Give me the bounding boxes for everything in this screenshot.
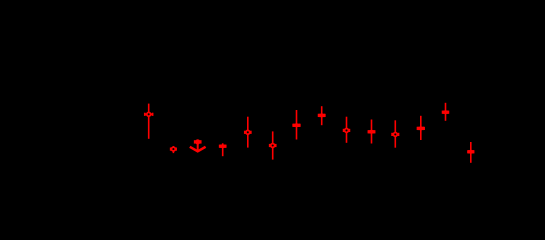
data point 3 (upper limit): filled circle marker	[195, 139, 200, 144]
data point 7: vertical error bar	[296, 110, 298, 140]
data point 12: circle marker	[419, 126, 423, 130]
data point 4: right cap	[225, 145, 227, 148]
data point 2: circle marker	[172, 147, 176, 151]
data point 14: vertical error bar	[470, 142, 472, 163]
data point 9: vertical error bar	[346, 117, 348, 143]
data point 1: left cap	[144, 113, 146, 116]
data point 9: circle marker	[345, 129, 349, 133]
data point 10: right cap	[374, 130, 376, 133]
data point 6: left cap	[269, 144, 271, 147]
data point 6: horizontal error bar	[270, 145, 276, 147]
data point 7: left cap	[292, 124, 294, 127]
data point 3 (upper limit): arrow head	[190, 147, 206, 152]
data point 8: circle marker	[320, 113, 324, 117]
data point 2: left cap	[170, 148, 172, 151]
data point 2: vertical error bar	[172, 146, 174, 153]
data point 4: vertical error bar	[222, 143, 224, 156]
data point 8: vertical error bar	[321, 106, 323, 125]
data point 7: right cap	[299, 124, 301, 127]
data point 3 (upper limit): left cap	[194, 140, 196, 143]
data point 1: vertical error bar	[148, 104, 150, 139]
data point 14: circle marker	[469, 150, 473, 154]
data point 6: right cap	[275, 144, 277, 147]
data point 5: right cap	[250, 131, 252, 134]
data point 11: left cap	[391, 133, 393, 136]
data point 12: vertical error bar	[420, 116, 422, 140]
data point 7: circle marker	[295, 123, 299, 127]
data point 8: right cap	[324, 114, 326, 117]
data point 5: vertical error bar	[247, 117, 249, 148]
data point 3 (upper limit): arrow stem	[197, 142, 199, 151]
data point 11: right cap	[398, 133, 400, 136]
data point 3 (upper limit): horizontal error bar	[195, 140, 201, 143]
data point 11: circle marker	[393, 133, 397, 137]
data point 11: horizontal error bar	[392, 133, 398, 135]
data point 1: right cap	[152, 113, 154, 116]
data point 9: right cap	[348, 129, 350, 132]
data point 2: horizontal error bar	[171, 148, 176, 150]
data point 6: circle marker	[271, 144, 275, 148]
data point 8: horizontal error bar	[319, 114, 325, 117]
data point 12: horizontal error bar	[418, 127, 425, 130]
data point 1: horizontal error bar	[145, 113, 153, 115]
data point 10: circle marker	[370, 130, 374, 134]
data point 2: right cap	[175, 148, 177, 151]
data point 14: left cap	[467, 150, 469, 153]
data point 14: horizontal error bar	[468, 150, 474, 153]
data point 13: circle marker	[444, 110, 448, 114]
data point 6: vertical error bar	[272, 131, 274, 159]
data point 5: left cap	[244, 131, 246, 134]
data point 5: horizontal error bar	[245, 131, 251, 133]
data point 10: left cap	[367, 130, 369, 133]
data point 1: circle marker	[147, 112, 151, 116]
data point 7: horizontal error bar	[293, 124, 300, 127]
data point 12: right cap	[423, 127, 425, 130]
data point 13: left cap	[442, 111, 444, 114]
data point 10: vertical error bar	[371, 120, 373, 144]
data point 4: circle marker	[221, 144, 225, 148]
data point 3 (upper limit): right cap	[200, 140, 202, 143]
data point 8: left cap	[318, 114, 320, 117]
data point 5: circle marker	[246, 130, 250, 134]
data point 9: horizontal error bar	[344, 129, 350, 131]
data point 10: horizontal error bar	[368, 130, 374, 133]
data point 12: left cap	[417, 127, 419, 130]
data point 13: horizontal error bar	[443, 110, 449, 113]
data point 9: left cap	[343, 129, 345, 132]
data point 13: right cap	[447, 111, 449, 114]
data point 14: right cap	[473, 150, 475, 153]
data point 13: vertical error bar	[445, 103, 447, 121]
data point 4: left cap	[219, 145, 221, 148]
data point 4: horizontal error bar	[220, 144, 226, 147]
data point 11: vertical error bar	[394, 120, 396, 147]
